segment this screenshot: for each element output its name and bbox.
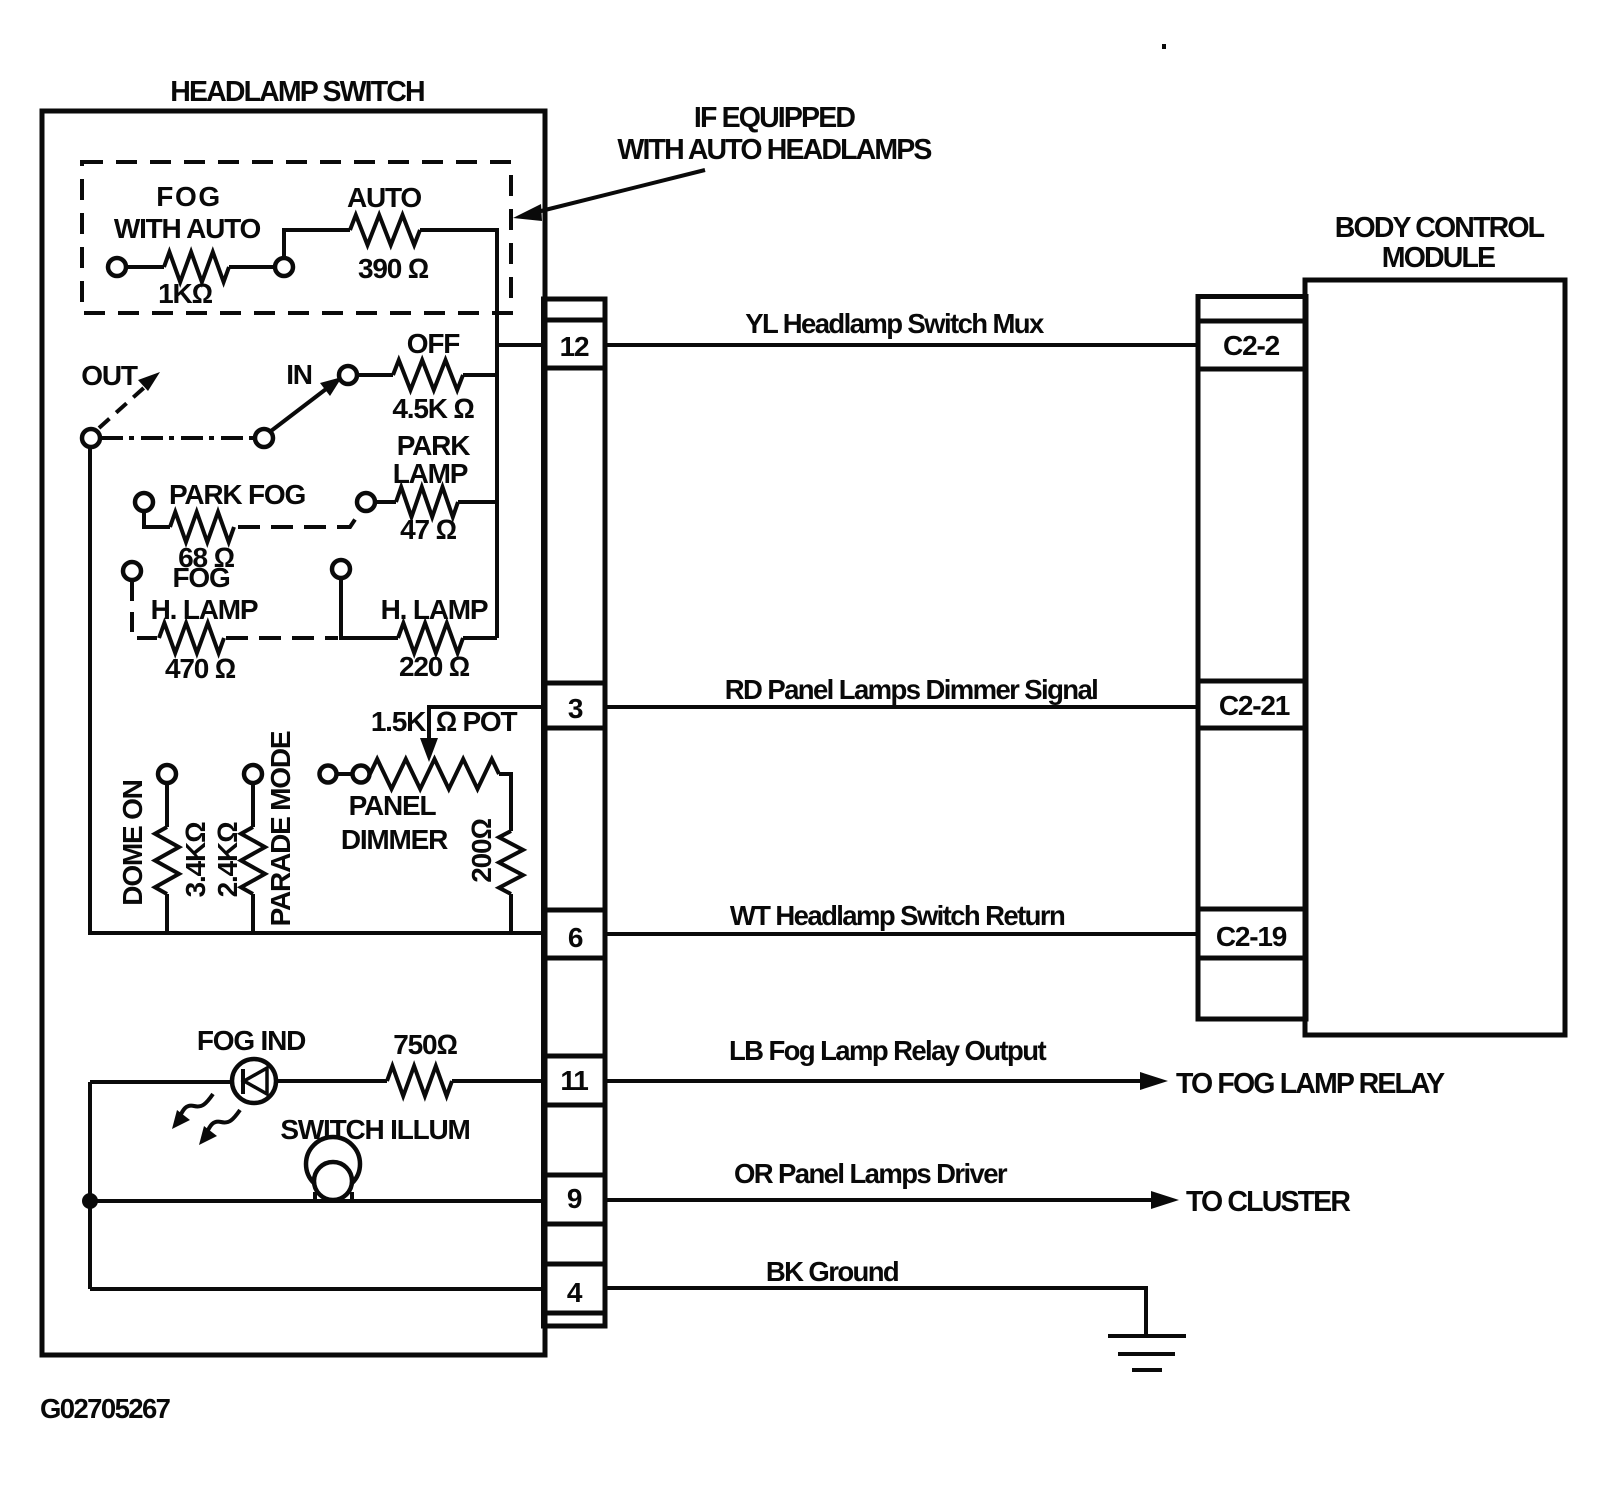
resistor 2.4K: [241, 827, 265, 894]
wire BK ground: [605, 1288, 1146, 1336]
svg-text:BK Ground: BK Ground: [766, 1256, 898, 1287]
svg-text:3.4KΩ: 3.4KΩ: [180, 822, 211, 897]
arrow to dashed box: [541, 170, 705, 211]
potentiometer 1.5K: [370, 759, 499, 789]
svg-text:OR Panel Lamps Driver: OR Panel Lamps Driver: [734, 1158, 1008, 1189]
svg-text:1.5K: 1.5K: [371, 706, 426, 737]
park fog contact: [135, 493, 153, 511]
svg-text:750Ω: 750Ω: [393, 1029, 457, 1060]
left vertical wire: [88, 446, 92, 933]
wire hlamp contact to resistor: [341, 578, 398, 638]
svg-text:C2-21: C2-21: [1219, 690, 1290, 721]
svg-text:H. LAMP: H. LAMP: [151, 594, 258, 625]
wire 390 to bus: [420, 230, 497, 638]
svg-text:PARK: PARK: [397, 430, 470, 461]
resistor 390: [350, 215, 420, 245]
dash-dot wire: [101, 436, 255, 440]
svg-text:HEADLAMP SWITCH: HEADLAMP SWITCH: [170, 76, 424, 108]
park lamp contact: [357, 493, 375, 511]
dashed wire fog hlamp: [132, 581, 159, 638]
svg-text:SWITCH ILLUM: SWITCH ILLUM: [280, 1114, 469, 1145]
hlamp contact circle: [332, 560, 350, 578]
dashed wire to park lamp contact: [238, 512, 360, 527]
wire LB fog relay: [605, 1079, 1152, 1083]
wire 1K to 390: [284, 230, 350, 258]
resistor 1K terminals: [108, 258, 126, 276]
wire RD dimmer: [605, 705, 1198, 709]
pot terminal circles: [320, 766, 337, 783]
svg-text:4.5K Ω: 4.5K Ω: [392, 393, 474, 424]
body control module box: [1305, 280, 1565, 1035]
svg-text:LB Fog Lamp Relay Output: LB Fog Lamp Relay Output: [729, 1035, 1046, 1066]
svg-text:AUTO: AUTO: [347, 182, 421, 213]
wire pin 3 to pot wiper: [429, 707, 544, 742]
lamp switch illum: [306, 1137, 360, 1191]
switch arm: [271, 386, 330, 431]
svg-text:2.4KΩ: 2.4KΩ: [212, 822, 243, 897]
svg-text:H. LAMP: H. LAMP: [381, 594, 488, 625]
off contact circle: [339, 366, 357, 384]
ground symbol: [1108, 1334, 1186, 1338]
resistor 220: [398, 623, 463, 653]
svg-text:OFF: OFF: [407, 328, 460, 359]
LED fog indicator: [232, 1059, 276, 1103]
resistor 4.5K: [357, 373, 393, 377]
svg-text:FOG: FOG: [172, 562, 229, 593]
svg-text:PARADE MODE: PARADE MODE: [265, 731, 296, 926]
svg-text:12: 12: [560, 331, 589, 362]
wire switch illum to pin 9: [90, 1199, 544, 1203]
svg-text:TO FOG LAMP RELAY: TO FOG LAMP RELAY: [1176, 1068, 1445, 1100]
svg-text:BODY CONTROL: BODY CONTROL: [1335, 212, 1545, 244]
svg-text:C2-19: C2-19: [1216, 921, 1287, 952]
svg-text:4: 4: [567, 1277, 583, 1308]
parade mode contact: [244, 765, 262, 783]
speck: [1162, 44, 1166, 49]
dashed box if-equipped: [82, 162, 511, 313]
dome on contact: [158, 765, 176, 783]
svg-text:390 Ω: 390 Ω: [358, 253, 429, 284]
switch connector column: [544, 299, 606, 1326]
wire to pin 4: [90, 1287, 544, 1291]
wire WT return: [605, 932, 1198, 936]
LED light arrows: [180, 1094, 213, 1116]
svg-text:TO CLUSTER: TO CLUSTER: [1186, 1186, 1350, 1218]
resistor 470: [159, 623, 224, 653]
svg-text:220 Ω: 220 Ω: [399, 651, 470, 682]
svg-text:1KΩ: 1KΩ: [158, 278, 212, 309]
wire bus to pin 12: [497, 343, 544, 347]
fog hlamp contact: [123, 562, 141, 580]
dashed wire 470 to hlamp: [226, 636, 338, 640]
wire pot to 200: [499, 774, 511, 831]
headlamp switch box: [42, 111, 545, 1355]
svg-text:11: 11: [560, 1065, 588, 1096]
svg-text:OUT: OUT: [81, 360, 138, 391]
svg-text:470 Ω: 470 Ω: [165, 653, 236, 684]
svg-text:RD Panel Lamps Dimmer Signal: RD Panel Lamps Dimmer Signal: [725, 674, 1097, 705]
wire YL mux: [605, 343, 1198, 347]
svg-text:DIMMER: DIMMER: [341, 824, 448, 855]
resistor 750: [387, 1066, 452, 1096]
resistor 200 vertical: [499, 831, 523, 894]
svg-text:LAMP: LAMP: [393, 458, 468, 489]
wire bottom of switch section to pin 6: [88, 931, 544, 935]
junction dot: [82, 1193, 98, 1209]
svg-text:47 Ω: 47 Ω: [400, 514, 456, 545]
BCM connector column: [1198, 297, 1306, 1020]
svg-text:G02705267: G02705267: [40, 1393, 171, 1424]
wire OR panel driver: [605, 1198, 1163, 1202]
resistor 1K: [126, 265, 164, 269]
svg-text:MODULE: MODULE: [1382, 242, 1495, 274]
svg-text:6: 6: [568, 922, 583, 953]
svg-text:FOG IND: FOG IND: [197, 1025, 306, 1056]
svg-text:3: 3: [568, 693, 583, 724]
svg-text:PANEL: PANEL: [349, 790, 437, 821]
svg-text:200Ω: 200Ω: [466, 819, 497, 883]
svg-text:WITH AUTO HEADLAMPS: WITH AUTO HEADLAMPS: [617, 134, 931, 166]
svg-text:C2-2: C2-2: [1223, 330, 1280, 361]
svg-text:Ω POT: Ω POT: [436, 706, 518, 737]
wire LED to 750: [276, 1079, 387, 1083]
svg-text:IN: IN: [286, 359, 312, 390]
svg-text:FOG: FOG: [156, 181, 221, 212]
wire to LED: [90, 1080, 233, 1084]
out terminal circle: [82, 429, 100, 447]
svg-text:WITH AUTO: WITH AUTO: [114, 213, 261, 244]
svg-text:WT Headlamp Switch Return: WT Headlamp Switch Return: [730, 900, 1065, 931]
svg-text:DOME ON: DOME ON: [117, 780, 148, 905]
pivot circle: [255, 429, 273, 447]
svg-text:YL Headlamp Switch Mux: YL Headlamp Switch Mux: [745, 308, 1045, 339]
resistor 68: [144, 511, 170, 527]
out arrow dashed: [99, 385, 147, 428]
svg-text:9: 9: [567, 1183, 582, 1214]
svg-text:IF EQUIPPED: IF EQUIPPED: [694, 102, 855, 134]
resistor 47: [375, 500, 396, 504]
svg-text:PARK FOG: PARK FOG: [169, 479, 306, 510]
resistor 3.4K: [155, 827, 179, 894]
